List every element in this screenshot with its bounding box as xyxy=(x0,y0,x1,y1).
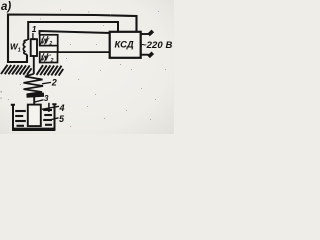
leader line for label 4 xyxy=(42,106,59,109)
leader line for label 1 xyxy=(32,33,36,39)
wire from winding W1 bottom lead to KSD top (outer loop) xyxy=(8,15,137,63)
supply terminal mark upper xyxy=(149,31,153,35)
vessel 5 walls xyxy=(11,104,57,129)
svg-text:4: 4 xyxy=(59,103,65,113)
svg-text:а): а) xyxy=(1,1,11,13)
liquid shading dashes xyxy=(15,110,52,126)
rod from plunger core down through ground gap xyxy=(33,56,35,74)
svg-text:3: 3 xyxy=(44,94,49,103)
secondary winding W''2 box xyxy=(40,52,58,64)
spring 2 xyxy=(24,74,44,94)
supply terminal mark lower xyxy=(149,53,153,57)
ground hatch band left xyxy=(1,65,32,75)
svg-text:1: 1 xyxy=(32,24,37,34)
leader line for label 3 xyxy=(34,100,44,102)
svg-text:~220 В: ~220 В xyxy=(141,40,173,51)
supply wire upper to ~220V xyxy=(141,33,149,35)
series connector wire between W'2 and W''2 xyxy=(58,46,111,53)
winding W1 coil arcs xyxy=(23,40,27,54)
secondary winding W'2 box xyxy=(40,35,58,47)
svg-text:2: 2 xyxy=(51,78,57,88)
leader line for label 5 xyxy=(50,118,59,120)
leader line for label 2 xyxy=(42,82,51,83)
wire from winding W1 top lead to KSD top (inner loop) xyxy=(28,22,118,40)
supply wire lower to ~220V xyxy=(141,54,149,56)
svg-text:КСД: КСД xyxy=(115,39,134,50)
vessel bottom thick xyxy=(12,128,55,131)
liquid level tick xyxy=(48,103,50,112)
wire from secondary winding W'2 to KSD bottom xyxy=(40,31,111,35)
rod 3 from spring to float xyxy=(33,97,35,106)
float 4 (displacer) xyxy=(28,105,41,127)
plunger core 1 xyxy=(31,39,37,56)
spring bottom thick coil xyxy=(27,95,45,96)
ground hatch band right xyxy=(37,65,64,75)
KSD secondary instrument box xyxy=(110,32,141,58)
